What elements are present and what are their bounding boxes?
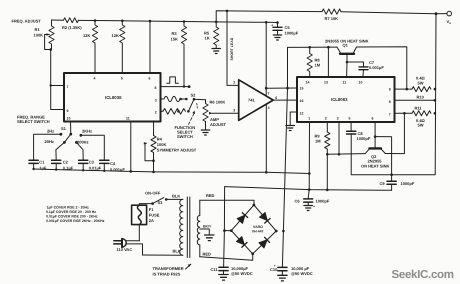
wire V+ mid rail <box>52 19 278 23</box>
svg-text:C9: C9 <box>380 181 386 186</box>
svg-text:R3: R3 <box>172 31 178 36</box>
potentiometer R4 100K symmetry adjust <box>144 122 197 174</box>
diode D4 (bottom-right edge) <box>259 237 270 248</box>
svg-text:RED: RED <box>203 252 212 257</box>
svg-text:7: 7 <box>268 91 270 95</box>
svg-text:100K: 100K <box>157 142 167 147</box>
resistor R11 0.4 ohm 5W <box>412 106 436 128</box>
wire emitter node line y=154 <box>327 153 365 156</box>
transformer T1 secondary winding <box>197 200 199 257</box>
svg-text:12K: 12K <box>83 33 90 38</box>
svg-text:C10: C10 <box>270 267 278 272</box>
capacitor C5 1000uF <box>271 21 299 35</box>
svg-text:SeekIC.com: SeekIC.com <box>392 269 454 281</box>
svg-text:C4: C4 <box>110 161 116 166</box>
resistor R3 15K <box>171 22 187 87</box>
svg-text:10: 10 <box>359 81 363 85</box>
wire ICL8063 pin 9 <box>395 88 413 90</box>
resistor R5 1K <box>204 22 219 48</box>
wire ICL8038 pin 2 triangle output <box>161 109 190 115</box>
resistor 12K (pin 5) <box>112 21 125 73</box>
wire SHORT LEAD (feedback node to 741 pin 2) <box>227 11 239 86</box>
square wave symbol <box>167 77 179 83</box>
svg-text:5W: 5W <box>418 80 424 85</box>
svg-text:100K: 100K <box>34 33 44 38</box>
svg-text:C6: C6 <box>295 199 301 204</box>
svg-text:3: 3 <box>233 109 235 113</box>
wire ICL8063 pin 7 <box>395 112 413 115</box>
wire S1 2Hz contact to C1 <box>34 134 61 160</box>
svg-text:1: 1 <box>308 117 310 121</box>
svg-text:F1: F1 <box>149 207 154 212</box>
op-amp U2 741 <box>233 80 277 121</box>
wire ICL8038 pin 8 square-wave output <box>161 85 191 88</box>
wire ICL8038 pin 11 to V- rail <box>130 122 133 173</box>
wire ICL8063 pin 3 down <box>338 122 341 156</box>
svg-text:ICL8063: ICL8063 <box>331 97 348 102</box>
wire S1 200Hz contact to C3 <box>76 142 83 160</box>
capacitor C2 0.1uF <box>52 160 74 171</box>
transistor Q1 2N3055 <box>325 39 369 78</box>
svg-text:0.1µF COVER RGE 20 - 200 Hz: 0.1µF COVER RGE 20 - 200 Hz <box>46 210 96 214</box>
svg-text:SELECT SWITCH: SELECT SWITCH <box>17 119 50 124</box>
IC U1 ICL8038 <box>64 73 161 122</box>
svg-text:7: 7 <box>67 85 69 89</box>
svg-text:1K: 1K <box>205 36 210 41</box>
svg-text:TRANSFORMER: TRANSFORMER <box>153 266 184 271</box>
svg-text:@50 WVDC: @50 WVDC <box>291 271 313 276</box>
wire V- upper rail (C1-C4 common to pin 1) <box>34 169 310 174</box>
svg-text:FREQ. ADJUST: FREQ. ADJUST <box>12 19 42 24</box>
switch S2 function select <box>188 93 205 112</box>
svg-text:R1: R1 <box>35 27 41 32</box>
svg-text:FUSE: FUSE <box>149 213 160 218</box>
resistor 12K (pin 4) <box>83 21 98 74</box>
svg-text:8: 8 <box>389 100 391 104</box>
svg-text:ON HEAT SINK: ON HEAT SINK <box>361 164 389 169</box>
svg-text:14: 14 <box>306 81 310 85</box>
svg-text:0.01µF: 0.01µF <box>89 166 102 171</box>
svg-text:1000pF: 1000pF <box>357 136 371 141</box>
svg-text:110 VAC: 110 VAC <box>117 247 133 252</box>
svg-text:ICL8038: ICL8038 <box>105 95 122 100</box>
svg-text:1M: 1M <box>315 139 321 144</box>
capacitor C7 0.001uF <box>347 60 384 77</box>
svg-text:2A: 2A <box>149 218 154 223</box>
ground under C11 <box>219 275 228 281</box>
svg-text:9: 9 <box>389 88 391 92</box>
svg-text:0.001µF: 0.001µF <box>110 167 125 172</box>
svg-text:R11: R11 <box>415 106 423 111</box>
svg-text:C11: C11 <box>211 267 219 272</box>
svg-text:20Hz: 20Hz <box>45 139 54 144</box>
ground under R5 <box>212 49 220 54</box>
svg-text:S2: S2 <box>191 93 197 98</box>
svg-text:6: 6 <box>275 96 277 100</box>
ground at center tap <box>205 235 214 241</box>
svg-text:ON-OFF: ON-OFF <box>145 190 161 195</box>
ground under R6 <box>201 130 209 135</box>
svg-text:12: 12 <box>300 112 304 116</box>
svg-text:C5: C5 <box>285 25 291 30</box>
ground under C5 <box>273 35 281 40</box>
svg-text:+: + <box>274 264 276 268</box>
fuse F1 2A <box>132 205 160 241</box>
wire ICL8063 pin 12 to ground <box>290 112 297 125</box>
svg-text:16: 16 <box>300 99 304 103</box>
svg-text:4: 4 <box>94 77 96 81</box>
wire secondary top RED to bridge top <box>200 193 254 205</box>
svg-text:1µF COVER RGE 2 - 20Hz: 1µF COVER RGE 2 - 20Hz <box>47 206 90 210</box>
svg-text:R10: R10 <box>417 94 425 99</box>
svg-text:13: 13 <box>324 81 328 85</box>
resistor R2 1.35K <box>62 18 82 30</box>
wire R1 wiper to ICL8038 pins 7 and 9 <box>50 50 65 110</box>
potentiometer R1 100K <box>34 20 55 51</box>
svg-text:VH 447: VH 447 <box>252 229 264 233</box>
ground under C6 <box>304 206 312 211</box>
svg-text:3: 3 <box>155 99 157 103</box>
svg-text:@50 WVDC: @50 WVDC <box>231 271 253 276</box>
capacitor C4 0.001uF <box>100 160 126 172</box>
wire 741 pin 4 to V- rail <box>265 104 268 173</box>
svg-text:1µF: 1µF <box>39 166 47 171</box>
label FUNCTION SELECT SWITCH with dashed arrow <box>175 111 196 140</box>
wire V- lower rail (bridge minus) <box>225 187 392 191</box>
resistor R9 1M <box>315 122 330 191</box>
resistor R8 1M <box>307 47 321 77</box>
wire ICL8063 pin 1 down <box>308 122 311 191</box>
label cap range notes <box>46 206 105 224</box>
svg-text:SWITCH: SWITCH <box>177 134 193 139</box>
svg-text:BLK: BLK <box>172 193 180 198</box>
wire output vertical from Vo to output line <box>351 14 436 175</box>
diode D2 (top-right edge) <box>260 212 271 223</box>
switch S1 frequency range <box>45 122 93 145</box>
wire S1 20Hz contact to C2 <box>56 142 65 160</box>
svg-text:2: 2 <box>233 81 235 85</box>
svg-text:6: 6 <box>149 77 151 81</box>
svg-text:2: 2 <box>155 111 157 115</box>
resistor R10 0.4 ohm 5W <box>412 76 436 100</box>
svg-text:R4: R4 <box>157 136 163 141</box>
IC U3 ICL8063 <box>297 77 395 122</box>
wire top feedback rail with corner at x=216 <box>216 10 447 22</box>
svg-text:SHORT LEAD: SHORT LEAD <box>230 37 234 60</box>
svg-text:C2: C2 <box>63 160 69 165</box>
svg-text:SYMMETRY ADJUST: SYMMETRY ADJUST <box>157 147 197 152</box>
potentiometer R6 100K amplitude adjust <box>203 99 239 129</box>
svg-text:10: 10 <box>67 117 71 121</box>
diode D3 (left-bottom edge) <box>237 237 248 248</box>
terminal Vo output <box>447 11 452 25</box>
wire 741 pin 6 output to ICL8063 pin 16 <box>273 99 297 101</box>
svg-text:BK/Y: BK/Y <box>203 225 212 229</box>
wire ICL8038 pin 3 sine output <box>161 96 188 101</box>
svg-text:ADJUST: ADJUST <box>210 122 227 127</box>
svg-text:Q1: Q1 <box>343 43 349 48</box>
transformer T1 core <box>187 197 190 258</box>
svg-text:IS TRIAD F92S: IS TRIAD F92S <box>153 272 181 277</box>
capacitor C1 1uF <box>29 160 47 171</box>
wire S1 2KHz contact to C4 <box>81 135 104 160</box>
resistor R7 10K <box>322 9 341 21</box>
ground at pin 12 <box>286 126 294 131</box>
svg-text:15: 15 <box>300 87 304 91</box>
svg-text:1000pF: 1000pF <box>316 199 330 204</box>
svg-text:200Hz: 200Hz <box>77 140 89 145</box>
capacitor C10 10000uF <box>270 264 313 276</box>
capacitor C6 1000pF <box>295 190 330 209</box>
label FREQ. RANGE SELECT SWITCH <box>17 114 50 124</box>
svg-text:5: 5 <box>121 77 123 81</box>
bridge rectifier VARO VH 447 <box>230 204 278 256</box>
svg-text:0.1µF: 0.1µF <box>63 166 74 171</box>
svg-text:12K: 12K <box>112 33 119 38</box>
svg-text:C3: C3 <box>89 160 95 165</box>
wire Q1 collector rail <box>288 46 409 90</box>
svg-text:5: 5 <box>349 117 351 121</box>
wire Q2 emitter to R11 left node <box>385 113 404 153</box>
switch S3 on-off <box>139 190 183 205</box>
capacitor C9 1000pF <box>380 181 415 190</box>
wire +V vertical (bridge + output to supply nodes) <box>282 47 287 267</box>
svg-text:4: 4 <box>268 106 270 110</box>
svg-text:R7 10K: R7 10K <box>325 16 339 21</box>
svg-text:15K: 15K <box>171 37 178 42</box>
svg-text:+: + <box>313 205 315 209</box>
svg-text:S1: S1 <box>61 126 67 131</box>
transistor Q2 2N2955 <box>361 122 389 169</box>
svg-text:11: 11 <box>126 117 130 121</box>
wire secondary center tap BK/Y to ground <box>200 225 212 235</box>
AC plug 110 VAC <box>114 239 143 255</box>
svg-text:2KHz: 2KHz <box>82 128 92 133</box>
wire bridge left vertex to V- rail and C11 <box>223 187 231 267</box>
label TRANSFORMER IS TRIAD F92S with arrow <box>153 264 191 277</box>
svg-text:11: 11 <box>343 81 347 85</box>
ground under C10 <box>278 275 287 281</box>
svg-text:R2 (1.35K): R2 (1.35K) <box>62 25 82 30</box>
capacitor C8 1000pF <box>347 122 371 141</box>
svg-text:BLK: BLK <box>173 249 181 254</box>
wire ICL8063 pin 8 to output node <box>395 99 437 102</box>
wire 741 pin 7 V+ <box>265 22 268 95</box>
capacitor C11 10000uF <box>211 266 253 276</box>
wire ICL8063 pin 13 to rail <box>327 47 329 77</box>
wire rail to pin 6 <box>149 21 151 73</box>
svg-text:1000pF: 1000pF <box>401 181 415 186</box>
svg-text:2: 2 <box>325 117 327 121</box>
svg-text:0.001µF: 0.001µF <box>369 65 384 70</box>
svg-text:VARO: VARO <box>253 225 263 229</box>
diode D1 (left-top edge) <box>237 213 248 224</box>
svg-text:6: 6 <box>372 117 374 121</box>
svg-text:9: 9 <box>67 109 69 113</box>
svg-text:8: 8 <box>155 86 157 90</box>
svg-text:5W: 5W <box>418 123 424 128</box>
capacitor C3 0.01uF <box>79 160 102 172</box>
svg-text:3: 3 <box>337 117 339 121</box>
svg-text:0.001µF COVER RGE 2KHz - 20KHz: 0.001µF COVER RGE 2KHz - 20KHz <box>46 219 105 223</box>
wire V+ node to ICL8063 pin 15 <box>266 87 297 90</box>
svg-text:C1: C1 <box>39 160 45 165</box>
svg-text:RED: RED <box>206 193 215 198</box>
wire secondary bottom RED to bridge bottom <box>200 252 253 261</box>
svg-text:741: 741 <box>248 98 255 103</box>
svg-text:7: 7 <box>389 113 391 117</box>
svg-text:1000µF: 1000µF <box>285 31 299 36</box>
transformer T1 primary winding <box>143 199 183 255</box>
wire Q2 base branch to C9 <box>375 137 393 181</box>
svg-text:2Hz: 2Hz <box>47 129 54 134</box>
svg-text:R6 100K: R6 100K <box>210 99 226 104</box>
svg-text:0.01µF COVER RGE 200 - 2KHz: 0.01µF COVER RGE 200 - 2KHz <box>46 215 98 219</box>
svg-text:1M: 1M <box>315 63 321 68</box>
